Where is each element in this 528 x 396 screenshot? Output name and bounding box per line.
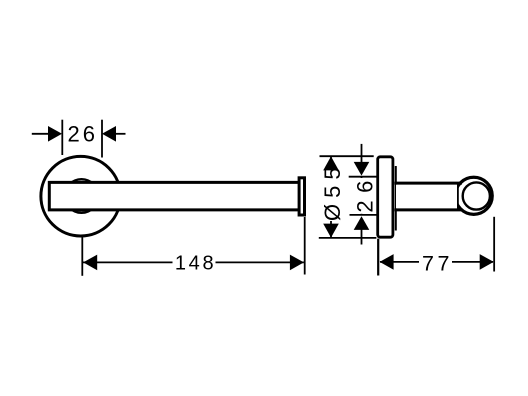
dim 26 leader left — [32, 133, 50, 135]
dim 55 bottom extension line — [319, 237, 377, 239]
dim 26 right arrow — [102, 126, 116, 142]
dim 26 side line — [361, 176, 363, 215]
dim 26 side text mask — [353, 178, 374, 214]
dim 77 line left segment — [380, 261, 419, 263]
dim 26 side top arrow — [354, 162, 370, 176]
wall plate — [378, 157, 393, 237]
dim 55 top extension line — [320, 155, 374, 157]
cap junction line — [457, 183, 459, 209]
svg-text:26: 26 — [352, 173, 377, 212]
svg-text:26: 26 — [68, 122, 98, 147]
dim 55 line — [330, 156, 332, 237]
dim 55 bottom arrow — [323, 224, 339, 238]
dim 77 right extension line — [493, 217, 495, 272]
screw cover circle — [65, 179, 99, 213]
dim 26 left arrow — [48, 126, 62, 142]
dim 77 right arrow — [480, 254, 494, 270]
dim 77 left extension line — [377, 239, 379, 276]
roll holder bar — [49, 182, 300, 210]
dim 77 left arrow — [380, 254, 394, 270]
plate step edge — [395, 166, 397, 231]
ring outer circle — [455, 177, 492, 214]
arm body fill — [396, 185, 458, 209]
dim 26 side bottom extension stub — [350, 214, 378, 216]
end cap — [299, 178, 304, 215]
dim 148 left arrow — [83, 255, 97, 271]
dim 55 top arrow — [323, 156, 339, 170]
svg-text:148: 148 — [175, 252, 216, 274]
dim 77 line right segment — [452, 261, 493, 263]
rosette circle — [41, 156, 121, 236]
dim 148 left extension line — [81, 237, 83, 276]
dim 55 text mask — [322, 168, 342, 221]
svg-text:Ø55: Ø55 — [320, 161, 345, 221]
dim 26 side top extension stub — [349, 176, 378, 178]
dim 26 side overshoot top — [361, 144, 363, 164]
dim 26 leader right — [114, 133, 126, 135]
dim 148 line right segment — [216, 261, 304, 263]
ring inner circle — [463, 182, 490, 209]
dim 26 left extension line — [61, 120, 63, 155]
dim 26 side overshoot bottom — [361, 229, 363, 245]
dim 148 right extension line — [304, 217, 306, 275]
dim 26 side bottom arrow — [354, 216, 370, 230]
svg-text:77: 77 — [422, 251, 453, 275]
dim 148 line left segment — [83, 261, 173, 263]
dim 26 right extension line — [101, 120, 103, 158]
dim 148 right arrow — [290, 255, 304, 271]
arm top edge — [395, 182, 463, 185]
arm bottom edge — [395, 208, 463, 211]
